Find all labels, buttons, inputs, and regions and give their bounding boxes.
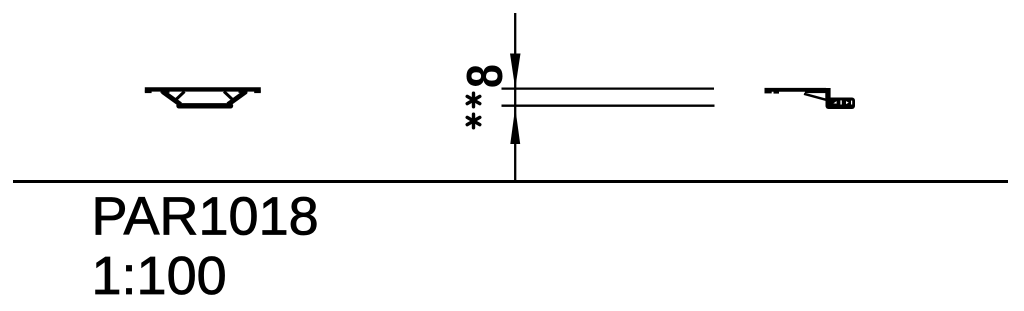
right unit hook [825,88,830,99]
left unit bowl right wall [228,92,246,105]
left unit top bar [145,87,261,91]
footnote asterisk 2 (rotated) [467,114,480,128]
left unit right end cap [254,91,261,94]
base box white mark 3 [846,101,849,104]
right unit lower bar segment [805,92,826,94]
left unit right spring link [224,92,234,101]
dimension line vertical [514,13,516,183]
left unit left spring link [175,92,185,101]
svg-text:PAR1018: PAR1018 [92,187,319,247]
left unit bowl left wall [163,92,181,105]
svg-text:8: 8 [457,64,513,88]
dimension arrow down [510,54,521,89]
ground line [13,180,1008,183]
left unit bowl bottom [179,103,231,108]
right unit small lug [774,91,780,93]
right unit base box [826,98,856,110]
slab top line [502,87,715,89]
dimension arrow up [510,108,520,145]
footnote asterisk 1 (rotated) [467,93,480,107]
base box white mark 1 [833,101,836,104]
left unit left end cap [145,91,152,94]
right unit left end cap [765,91,772,93]
right unit diagonal brace [804,94,828,100]
left unit left junction pad [161,91,170,93]
left unit right junction pad [239,91,248,93]
slab bottom line [502,105,715,107]
base box white mark 4 [851,101,852,105]
right unit strut to base [828,99,838,105]
svg-text:1:100: 1:100 [92,246,227,306]
base box white mark 2 [840,100,841,104]
right unit top bar [765,88,827,92]
